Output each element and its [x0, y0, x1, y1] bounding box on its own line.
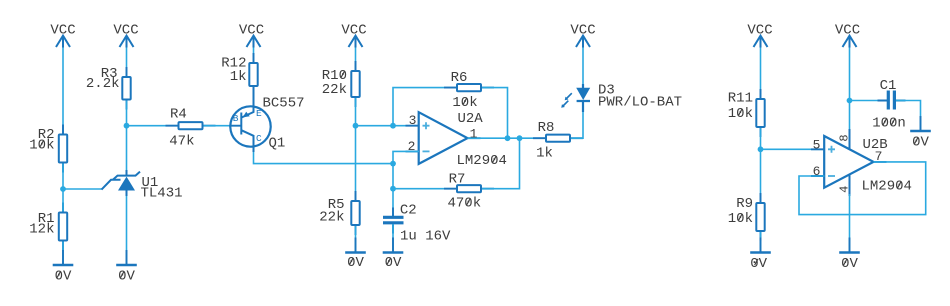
wire R9 to ground	[760, 232, 762, 253]
wire R3 to node	[126, 101, 128, 126]
ground 0V (under U2B)	[839, 238, 860, 272]
capacitor C1	[872, 78, 906, 132]
wire TL431 cathode	[126, 126, 128, 173]
wire VCC to R10	[355, 48, 357, 71]
node noninverting junction	[353, 123, 359, 129]
wire R4 to Q1 base	[204, 125, 230, 127]
node R6 tap junction	[390, 123, 396, 129]
resistor R3	[86, 66, 131, 109]
resistor R4	[166, 107, 216, 150]
resistor R12	[221, 53, 257, 96]
ground 0V (under C1)	[910, 116, 931, 150]
wire R5 branch	[355, 126, 357, 200]
svg-text:4: 4	[837, 186, 851, 193]
resistor R2	[29, 125, 67, 173]
resistor R5	[319, 191, 359, 235]
svg-text:BC557: BC557	[263, 96, 305, 112]
wire VCC to R3	[126, 48, 128, 77]
svg-text:22k: 22k	[319, 210, 344, 226]
wire node to R9	[760, 149, 762, 202]
wire node to R4	[127, 125, 178, 127]
svg-text:TL431: TL431	[141, 186, 183, 202]
wire VCC to LED anode	[582, 48, 584, 89]
wire U2B feedback loop	[799, 162, 926, 215]
wire R11 to node	[760, 128, 762, 149]
LED D3 symbol	[561, 84, 590, 112]
svg-text:C: C	[256, 133, 262, 144]
svg-text:0V: 0V	[750, 256, 767, 272]
svg-text:VCC: VCC	[239, 23, 264, 39]
wire C1 branch	[850, 100, 887, 102]
svg-text:C1: C1	[880, 78, 897, 94]
svg-text:R7: R7	[449, 171, 466, 187]
wire pin 2 net	[393, 151, 419, 188]
pin number 2	[408, 139, 416, 154]
svg-text:47k: 47k	[169, 134, 194, 150]
power flag VCC (R3 rail)	[113, 23, 138, 48]
svg-text:2.2k: 2.2k	[86, 76, 120, 92]
node output/R7 junction	[517, 135, 523, 141]
svg-text:1k: 1k	[536, 146, 553, 162]
svg-text:PWR/LO-BAT: PWR/LO-BAT	[598, 94, 682, 110]
node C1 tap junction	[847, 98, 853, 104]
ground 0V (under R9)	[750, 238, 771, 272]
wire R6 branch	[393, 88, 456, 126]
svg-text:22k: 22k	[322, 82, 347, 98]
node collector/inverting junction	[390, 161, 396, 167]
wire C1 to ground	[896, 101, 921, 132]
pin number 4	[837, 186, 851, 193]
svg-text:LM2904: LM2904	[862, 179, 912, 195]
wire R7 to output	[482, 138, 520, 189]
ground 0V (under TL431)	[116, 250, 137, 284]
svg-text:6: 6	[813, 164, 821, 179]
ground 0V (under R5)	[345, 238, 366, 272]
label Q1	[269, 135, 286, 151]
ground 0V (under R1)	[53, 250, 74, 284]
svg-text:E: E	[256, 108, 262, 119]
power flag VCC (LED rail)	[570, 23, 595, 48]
resistor R6	[444, 70, 494, 111]
svg-text:R9: R9	[736, 196, 753, 212]
svg-text:10k: 10k	[728, 211, 753, 227]
wire R6 to output	[482, 88, 508, 139]
svg-text:LM2904: LM2904	[457, 153, 507, 169]
svg-text:100n: 100n	[872, 116, 906, 132]
svg-text:8: 8	[837, 134, 851, 141]
wire pin 4 to ground	[849, 194, 851, 253]
pin label B	[233, 113, 239, 124]
label PWR/LO-BAT	[598, 94, 682, 110]
power flag VCC (R12 rail)	[239, 23, 264, 48]
label LM2904 (U2A)	[457, 153, 507, 169]
wire node to pin 3	[356, 125, 420, 127]
wire R2 to node	[62, 164, 64, 190]
label D3	[598, 83, 615, 99]
wire node to TL431 ref	[63, 188, 102, 190]
pin number 3	[409, 113, 417, 128]
svg-text:R11: R11	[728, 90, 753, 106]
ground 0V (under C2)	[383, 238, 404, 272]
resistor R1	[29, 203, 67, 251]
wire R5 to ground	[355, 226, 357, 253]
wire R1 to ground	[62, 242, 64, 266]
label TL431	[141, 186, 183, 202]
wire C2 branch	[392, 189, 394, 216]
svg-text:Q1: Q1	[269, 135, 286, 151]
wire C2 to ground	[392, 224, 394, 253]
svg-text:R6: R6	[451, 70, 468, 86]
svg-text:R4: R4	[170, 107, 187, 123]
wire TL431 anode to ground	[126, 196, 128, 265]
svg-text:5: 5	[813, 137, 821, 152]
pin number 1	[470, 127, 478, 142]
power flag VCC (left divider)	[50, 23, 75, 48]
wire node to R1	[62, 189, 64, 212]
wire VCC to pin 8	[849, 48, 851, 132]
wire Q1 collector to comparator	[254, 152, 394, 164]
wire VCC to R12	[253, 48, 255, 63]
resistor R7	[444, 171, 494, 211]
pin number 7	[875, 149, 883, 164]
wire R7 branch	[393, 188, 456, 190]
pin number 8	[837, 134, 851, 141]
svg-text:VCC: VCC	[835, 23, 860, 39]
transistor Q1 BC557 symbol	[229, 87, 270, 152]
wire VCC to R11	[760, 48, 762, 99]
svg-text:U2B: U2B	[863, 137, 888, 153]
resistor R8	[533, 120, 583, 162]
node R11/R9 junction	[758, 146, 764, 152]
svg-text:C2: C2	[400, 202, 417, 218]
svg-text:3: 3	[409, 113, 417, 128]
svg-text:12k: 12k	[29, 221, 54, 237]
power flag VCC (R11 rail)	[747, 23, 772, 48]
pin label C	[256, 133, 262, 144]
resistor R9	[728, 193, 765, 241]
wire U2A output	[468, 137, 546, 139]
svg-text:10k: 10k	[29, 137, 54, 153]
wire VCC to R2	[62, 48, 64, 134]
node R7 tap junction	[390, 186, 396, 192]
svg-text:U2A: U2A	[458, 111, 484, 127]
svg-text:1: 1	[470, 127, 478, 142]
svg-text:B: B	[233, 113, 239, 124]
pin number 5	[813, 137, 821, 152]
svg-text:VCC: VCC	[341, 23, 366, 39]
label U2B	[863, 137, 888, 153]
label BC557	[263, 96, 305, 112]
pin label E	[256, 108, 262, 119]
pin number 6	[813, 164, 821, 179]
svg-text:10k: 10k	[452, 95, 477, 111]
op-amp U2B LM2904 body	[811, 129, 887, 196]
capacitor C2	[383, 202, 451, 244]
svg-text:1k: 1k	[230, 69, 247, 85]
resistor R11	[728, 89, 765, 137]
svg-text:10k: 10k	[728, 106, 753, 122]
svg-text:1u 16V: 1u 16V	[400, 229, 451, 245]
wire node to pin 5	[761, 148, 825, 150]
label U1	[142, 175, 159, 191]
power flag VCC (R10 rail)	[341, 23, 366, 48]
resistor R10	[322, 61, 360, 107]
shunt regulator U1 TL431 symbol	[102, 170, 141, 196]
wire R10 to node	[355, 98, 357, 126]
wire R8 to LED	[571, 110, 583, 138]
svg-text:R8: R8	[538, 120, 555, 136]
label LM2904 (U2B)	[862, 179, 912, 195]
node R3/R4/TL431 junction	[124, 123, 130, 129]
op-amp U2A LM2904 body	[406, 112, 481, 164]
label U2A	[458, 111, 484, 127]
svg-text:470k: 470k	[447, 195, 481, 211]
node output/R6 junction	[505, 135, 511, 141]
power flag VCC (U2B rail)	[835, 23, 860, 48]
node divider junction	[60, 186, 66, 192]
